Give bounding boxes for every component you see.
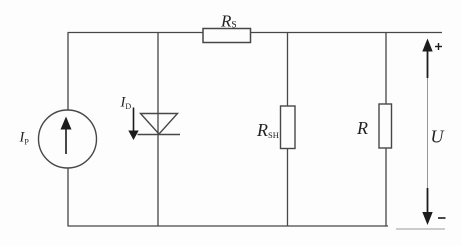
svg-text:RS: RS (220, 12, 237, 31)
wire top-left horizontal (68, 32, 204, 34)
svg-text:ID: ID (120, 95, 132, 112)
plus sign (435, 43, 442, 50)
voltage U indicator line (427, 42, 429, 222)
current source IP arrow (61, 117, 72, 155)
svg-text:IP: IP (19, 130, 30, 147)
svg-text:U: U (431, 127, 445, 147)
wire load branch lower (385, 148, 387, 226)
wire shunt branch lower (287, 149, 289, 227)
wire diode branch (157, 33, 159, 227)
wire top-right horizontal (251, 32, 443, 34)
wire bottom horizontal (68, 225, 389, 227)
svg-text:RSH: RSH (256, 120, 279, 140)
wire shunt branch upper (287, 33, 289, 107)
resistor RS (203, 29, 251, 43)
svg-text:R: R (356, 118, 368, 138)
wire load branch upper (385, 33, 387, 105)
wire bottom-right light segment (396, 228, 445, 230)
current source IP circle (39, 110, 97, 168)
minus sign (438, 217, 446, 219)
arrow U top (422, 39, 432, 79)
resistor R load (379, 104, 392, 148)
wire left branch upper (67, 33, 69, 111)
resistor RSH (281, 106, 296, 149)
arrow ID current (128, 108, 138, 141)
arrow U bottom (422, 188, 432, 225)
wire left branch lower (67, 168, 69, 226)
diode D1 (138, 114, 181, 135)
